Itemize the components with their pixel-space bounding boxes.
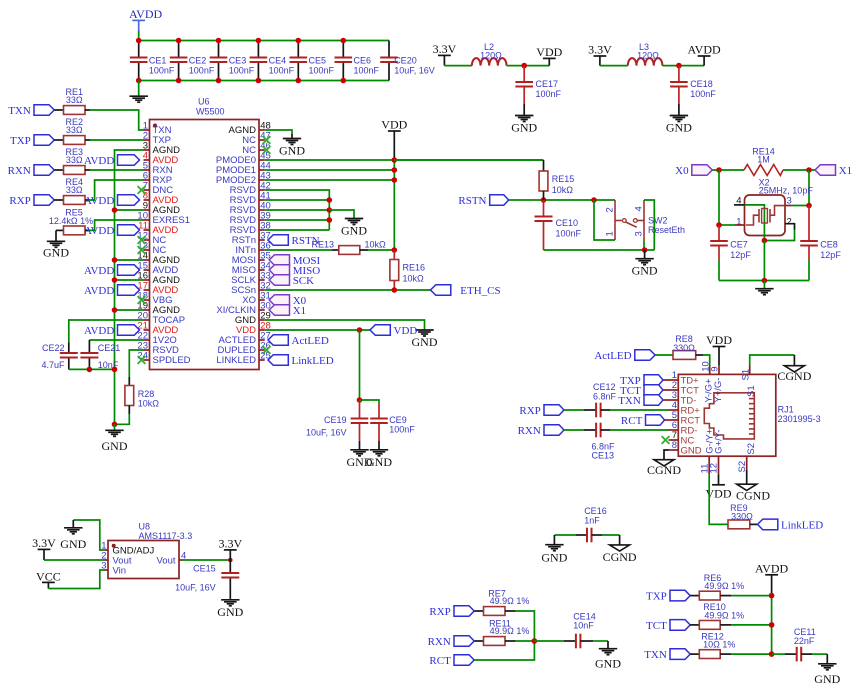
svg-text:12pF: 12pF xyxy=(820,250,841,260)
svg-text:10uF, 16V: 10uF, 16V xyxy=(394,66,435,76)
junction PMODE1 xyxy=(392,167,398,173)
svg-text:49.9Ω 1%: 49.9Ω 1% xyxy=(704,610,744,620)
crystal X2 inner symbol xyxy=(736,195,792,227)
junction AGND rail/cap rail xyxy=(112,367,118,373)
wire AVDD term rail xyxy=(771,596,773,655)
crystal X2 25MHz xyxy=(745,177,814,235)
junction pin3/CE8 xyxy=(806,203,812,209)
wire pin20 TOCAP to CE22 xyxy=(69,320,144,342)
junction RSVD41 xyxy=(327,197,333,203)
svg-text:4: 4 xyxy=(633,206,644,211)
port AVDD pin15 xyxy=(84,265,140,277)
svg-text:CE15: CE15 xyxy=(193,564,216,574)
resistor RE6 49.9R 1% xyxy=(690,595,699,597)
svg-text:AVDD: AVDD xyxy=(84,325,114,337)
wire RE11 to node xyxy=(505,640,516,642)
capacitor CE19 10uF 16V xyxy=(359,400,361,419)
pin 19 AGND (left) xyxy=(137,301,180,317)
pin 6 RXP (left) xyxy=(143,171,172,187)
wire L2 to VDD xyxy=(507,65,550,67)
svg-text:TXN: TXN xyxy=(618,395,641,407)
inductor L3 120R xyxy=(628,58,663,66)
svg-text:RCT: RCT xyxy=(429,655,451,667)
svg-text:RE15: RE15 xyxy=(552,174,575,184)
svg-text:12pF: 12pF xyxy=(730,250,751,260)
svg-text:TXN: TXN xyxy=(644,649,667,661)
svg-text:10nF: 10nF xyxy=(573,621,594,631)
pin 44 PMODE1 (right) xyxy=(216,161,271,177)
no-connect X pin 13 NC xyxy=(138,246,146,254)
chassis ground (CE16 right) xyxy=(619,535,621,545)
wire CE22/CE21 bottom rail xyxy=(69,368,115,370)
wire RCT stub xyxy=(665,419,669,421)
wire node to CE14 xyxy=(534,640,564,642)
pin 20 TOCAP (left) xyxy=(137,311,185,327)
pin 12 NC (left) xyxy=(137,231,166,247)
pin 28 VDD (right) xyxy=(236,321,271,337)
svg-text:CE2: CE2 xyxy=(189,56,207,66)
svg-text:GND: GND xyxy=(666,121,692,135)
svg-text:6.8nF: 6.8nF xyxy=(592,441,616,451)
capacitor CE22 4.7uF xyxy=(68,342,70,353)
resistor R28 10k xyxy=(128,377,130,386)
svg-text:RXN: RXN xyxy=(8,165,31,177)
capacitor CE13 6.8nF xyxy=(592,423,616,461)
svg-text:ActLED: ActLED xyxy=(594,350,631,362)
port TXP xyxy=(10,135,54,147)
svg-text:AVDD: AVDD xyxy=(84,155,114,167)
pin 48 AGND (right) xyxy=(229,121,271,137)
ground (CE15) xyxy=(217,600,243,619)
svg-text:GND: GND xyxy=(595,657,621,671)
svg-text:ETH_CS: ETH_CS xyxy=(460,285,500,297)
svg-text:CGND: CGND xyxy=(736,488,770,502)
wire VCC to pin3 xyxy=(48,570,104,589)
port SCK pin33 xyxy=(269,275,314,287)
junction pin9 xyxy=(112,207,118,213)
wire crystal pin4 net (through body) xyxy=(745,205,765,241)
wire 3.3V to L3 xyxy=(600,65,628,67)
svg-text:2: 2 xyxy=(604,207,615,212)
junction TXN xyxy=(769,651,775,657)
pin 3 AGND (left) xyxy=(143,141,180,157)
svg-text:CGND: CGND xyxy=(647,463,681,477)
RJ1 pin 8 GND xyxy=(669,440,702,456)
pin 36 INTn (right) xyxy=(235,241,270,257)
power AVDD (term) xyxy=(755,561,788,595)
wire RE14 to X1 xyxy=(783,169,815,171)
capacitor CE9 100nF xyxy=(378,404,380,419)
wire pin38 RSVD xyxy=(265,229,330,231)
wire VDD to RE15 xyxy=(394,159,543,161)
port X1 pin30 xyxy=(269,305,306,317)
pin 27 ACTLED (right) xyxy=(219,331,271,347)
power VCC (U8 Vin) xyxy=(36,570,61,589)
svg-text:U6: U6 xyxy=(198,96,210,106)
svg-text:GND: GND xyxy=(217,605,243,619)
junction pin4/CE15 xyxy=(228,558,233,563)
pin 21 AVDD (left) xyxy=(137,321,178,337)
RJ1 pin 3 TD- xyxy=(669,390,697,406)
wire AVDD stem xyxy=(138,31,140,41)
resistor RE10 49.9R 1% xyxy=(690,624,699,626)
svg-text:330Ω: 330Ω xyxy=(731,511,753,521)
svg-text:49.9Ω 1%: 49.9Ω 1% xyxy=(490,596,530,606)
pin 45 PMODE0 (right) xyxy=(216,151,271,167)
wire pin9 AGND xyxy=(115,209,144,211)
svg-text:GND: GND xyxy=(43,246,69,260)
svg-text:AMS1117-3.3: AMS1117-3.3 xyxy=(139,531,193,541)
wire CE8 to rail xyxy=(808,259,810,281)
svg-text:GND: GND xyxy=(511,121,537,135)
wire pin42 RSVD xyxy=(265,190,330,230)
power 3.3V (L2 input) xyxy=(433,42,457,66)
pin 5 RXN (left) xyxy=(143,161,173,177)
U8 pin 3 Vin xyxy=(101,561,126,577)
port AVDD pin8 xyxy=(84,195,140,207)
capacitor CE5 100nF xyxy=(297,41,299,58)
svg-text:GND: GND xyxy=(279,144,305,158)
junction gnd rail xyxy=(762,278,768,284)
wire pin41 RSVD xyxy=(265,199,330,201)
svg-text:Vout: Vout xyxy=(156,556,175,567)
svg-text:GND: GND xyxy=(632,264,658,278)
ground (U8 pin1) xyxy=(72,520,74,528)
svg-text:RXP: RXP xyxy=(519,405,540,417)
svg-text:120Ω: 120Ω xyxy=(637,50,659,60)
resistor RE7 49.9R 1% xyxy=(475,610,484,612)
port LinkLED pin25 xyxy=(268,355,334,367)
chassis ground (S1) xyxy=(777,366,811,384)
wire SW2 pin3 down xyxy=(643,241,645,251)
capacitor CE3 100nF xyxy=(218,41,220,58)
svg-text:AVDD: AVDD xyxy=(84,195,114,207)
pin 42 RSVD (right) xyxy=(230,181,271,197)
svg-text:LinkLED: LinkLED xyxy=(292,355,334,367)
wire pin4 to 3.3V xyxy=(183,559,231,561)
pin 11 AVDD (left) xyxy=(138,221,178,237)
svg-text:12: 12 xyxy=(709,463,720,474)
pin 29 GND (right) xyxy=(235,311,271,327)
svg-text:3.3V: 3.3V xyxy=(588,43,612,57)
ground (CE9) xyxy=(378,441,380,450)
svg-text:CE4: CE4 xyxy=(269,56,287,66)
wire TXN to pin1 xyxy=(85,109,90,111)
svg-text:GND: GND xyxy=(366,455,392,469)
wire pin40 RSVD xyxy=(265,209,330,211)
ic U6 W5500 body xyxy=(150,96,260,369)
svg-text:AVDD: AVDD xyxy=(755,561,788,575)
port TXN (RJ45) xyxy=(618,395,663,407)
resistor RE15 10k xyxy=(543,160,545,171)
svg-text:10kΩ: 10kΩ xyxy=(138,399,160,409)
port TXP (RJ45) xyxy=(620,375,663,387)
wire VDD rail xyxy=(393,160,395,250)
resistor RE8 330R xyxy=(673,334,696,359)
svg-text:LinkLED: LinkLED xyxy=(781,519,823,531)
junction dots CE4 xyxy=(256,38,262,44)
no-connect X pin 18 VBG xyxy=(138,296,146,304)
U8 pin 2 Vout xyxy=(101,551,132,567)
port RCT (term) xyxy=(429,655,474,667)
pin 2 wire X2 xyxy=(785,224,795,230)
capacitor CE1 100nF xyxy=(138,41,140,58)
junction dots CE6 xyxy=(341,38,347,44)
port AVDD pin4 xyxy=(84,155,140,167)
wire 3.3V to L2 xyxy=(444,65,472,67)
svg-text:2301995-3: 2301995-3 xyxy=(778,414,821,424)
wire ActLED to RE8 xyxy=(656,354,674,356)
svg-text:33Ω: 33Ω xyxy=(66,155,83,165)
wire pin22 1V2O to CE21 xyxy=(89,339,143,341)
port RSTN pin37 xyxy=(268,235,320,247)
svg-text:33Ω: 33Ω xyxy=(66,185,83,195)
svg-text:33Ω: 33Ω xyxy=(66,95,83,105)
junction RSVD40 xyxy=(327,207,333,213)
svg-text:1: 1 xyxy=(604,231,615,236)
port RSTN (reset circuit) xyxy=(458,195,508,207)
pin 2 TXP (left) xyxy=(143,131,171,147)
pin 10 EXRES1 (left) xyxy=(137,211,190,227)
svg-text:CE10: CE10 xyxy=(556,218,579,228)
junction CE19/CE9 xyxy=(357,397,363,403)
ground (CE11) xyxy=(826,654,828,664)
pin 4 AVDD (left) xyxy=(143,151,179,167)
svg-text:100nF: 100nF xyxy=(690,89,716,99)
port RXN (term) xyxy=(428,636,475,648)
RJ1 pin 2 TCT xyxy=(669,380,700,396)
svg-text:RE16: RE16 xyxy=(403,263,426,273)
svg-text:100nF: 100nF xyxy=(309,66,335,76)
no-connect X pin 47 NC xyxy=(263,136,271,144)
pin 31 XO (right) xyxy=(242,291,271,307)
wire cap-bank bottom rail xyxy=(139,80,389,82)
U8 pin 4 Vout xyxy=(156,551,186,567)
wire pin23 RSVD to R28 xyxy=(129,350,143,377)
junction VDD/decoupling xyxy=(357,327,363,333)
port TCT (term) xyxy=(646,620,690,632)
wire S1 to CGND xyxy=(750,355,795,365)
svg-text:CE6: CE6 xyxy=(354,56,372,66)
junction dots CE2 xyxy=(176,38,182,44)
RJ1 pin 5 RCT xyxy=(669,410,701,426)
svg-text:CE17: CE17 xyxy=(536,79,559,89)
svg-text:S1: S1 xyxy=(740,369,751,381)
wire CE14 to gnd xyxy=(580,640,593,642)
pin 1 TXN (left) xyxy=(143,121,172,137)
RJ1 pin 7 NC xyxy=(669,430,695,446)
svg-text:9: 9 xyxy=(710,367,721,372)
ic U8 AMS1117-3.3 body xyxy=(108,521,192,578)
port VDD pin28 xyxy=(370,325,417,337)
capacitor CE20 10uF 16V xyxy=(388,41,390,58)
resistor RE5 12.4k 1% xyxy=(56,229,64,231)
wire RE8 to RJ1 pin10 xyxy=(696,354,703,356)
pin 40 RSVD (right) xyxy=(230,201,271,217)
wire CE13 to RJ1 pin6 xyxy=(601,429,610,431)
svg-text:RXP: RXP xyxy=(429,606,450,618)
svg-text:GND: GND xyxy=(681,445,702,456)
wire RE7 to node xyxy=(505,610,516,612)
wire R28 to AGND rail xyxy=(115,414,130,424)
svg-text:AVDD: AVDD xyxy=(84,225,114,237)
wire TCT stub xyxy=(663,389,669,391)
svg-text:3.3V: 3.3V xyxy=(433,42,457,56)
svg-text:CE19: CE19 xyxy=(324,415,347,425)
RJ1 pin S2 xyxy=(737,443,757,473)
power VDD (RJ1 pin12, down) xyxy=(706,474,732,500)
svg-text:GND: GND xyxy=(814,672,840,686)
ground (pin29) xyxy=(412,330,438,349)
wire X0 to RE14 xyxy=(712,169,744,171)
svg-text:VDD: VDD xyxy=(706,333,732,347)
svg-text:VCC: VCC xyxy=(36,570,61,584)
power flag AVDD (top) xyxy=(129,7,162,31)
wire pin29 GND to gnd xyxy=(265,320,425,330)
svg-text:100nF: 100nF xyxy=(229,66,255,76)
no-connect X pin 7 DNC xyxy=(138,186,146,194)
pin 4 stub X2 xyxy=(734,204,745,206)
junction pin16 xyxy=(112,277,118,283)
port RXP (CE12) xyxy=(519,405,564,417)
wire VDD down to caps xyxy=(359,330,361,400)
wire pin28 VDD xyxy=(265,329,370,331)
svg-text:CE5: CE5 xyxy=(309,56,327,66)
pin 15 AVDD (left) xyxy=(137,261,178,277)
inductor L2 120R xyxy=(472,58,507,66)
svg-text:CE9: CE9 xyxy=(389,415,407,425)
svg-text:Y+/G-: Y+/G- xyxy=(713,378,724,403)
ground (CE14) xyxy=(607,641,609,649)
junction node AVDD filter xyxy=(676,63,682,69)
svg-text:10kΩ: 10kΩ xyxy=(365,240,387,250)
svg-text:2: 2 xyxy=(787,216,792,227)
svg-text:CE20: CE20 xyxy=(394,56,417,66)
resistor RE12 10R 1% xyxy=(690,653,699,655)
svg-text:3.3V: 3.3V xyxy=(218,536,242,550)
pin 30 XI/CLKIN (right) xyxy=(216,301,270,317)
svg-text:10Ω 1%: 10Ω 1% xyxy=(703,640,735,650)
wire pin48 AGND to gnd xyxy=(265,130,292,134)
capacitor CE16 1nF xyxy=(554,534,576,536)
wire to CE9 xyxy=(360,400,380,404)
ground (CE16 left) xyxy=(553,535,555,545)
junction PMODE0 xyxy=(392,157,398,163)
svg-text:VDD: VDD xyxy=(536,45,562,59)
pin 7 DNC (left) xyxy=(143,181,174,197)
svg-text:100nF: 100nF xyxy=(149,66,175,76)
power AVDD (L3 output) xyxy=(688,43,721,66)
wire pin11 to RE9 xyxy=(709,474,728,524)
svg-text:22nF: 22nF xyxy=(794,636,815,646)
RJ1 pin 4 RD+ xyxy=(669,400,701,416)
wire cap-bank top rail xyxy=(139,40,389,42)
svg-text:4.7uF: 4.7uF xyxy=(41,360,65,370)
svg-text:SW2: SW2 xyxy=(648,215,668,225)
pin 1 wire X2 xyxy=(719,224,735,226)
no-connect X RJ1 pin7 xyxy=(662,436,670,444)
svg-text:10kΩ: 10kΩ xyxy=(403,274,425,284)
capacitor CE12 6.8nF xyxy=(593,382,617,417)
wire RE6 to rail xyxy=(720,595,731,597)
svg-text:X1: X1 xyxy=(839,165,852,177)
svg-text:10uF, 16V: 10uF, 16V xyxy=(175,583,216,593)
ground (CE18) xyxy=(678,104,680,116)
svg-text:GND: GND xyxy=(60,537,86,551)
svg-text:TXP: TXP xyxy=(646,591,667,603)
wire CE12 to RJ1 pin4 xyxy=(601,409,610,411)
port RXN xyxy=(8,165,55,177)
svg-text:1M: 1M xyxy=(757,155,770,165)
power VDD (RJ1 pin9) xyxy=(706,333,732,365)
port RCT (RJ45) xyxy=(621,415,665,427)
svg-text:LINKLED: LINKLED xyxy=(216,355,256,366)
port AVDD pin17 xyxy=(84,285,140,297)
port AVDD pin21 xyxy=(84,325,140,337)
svg-text:S1: S1 xyxy=(746,385,757,397)
junction SW2 left xyxy=(591,197,597,203)
wire pin44 PMODE1 xyxy=(265,169,395,171)
ground (CE17) xyxy=(523,104,525,116)
wire RE12 to rail xyxy=(720,653,731,655)
resistor RE14 1M (zigzag) xyxy=(744,165,783,176)
ground (CE19) xyxy=(359,441,361,450)
port X1 (crystal) xyxy=(815,165,852,177)
svg-text:Vin: Vin xyxy=(113,566,127,577)
wire pin43 PMODE2 xyxy=(265,179,395,181)
pin 9 AGND (left) xyxy=(143,201,180,217)
no-connect X pin 24 SPDLED xyxy=(138,356,146,364)
wire rail to CE11 xyxy=(772,653,785,655)
pin 16 AGND (left) xyxy=(137,271,180,287)
wire L3 to AVDD xyxy=(662,65,704,67)
port ActLED (RJ45) xyxy=(594,350,655,362)
wire RE9 to LinkLED xyxy=(750,523,758,525)
svg-text:VDD: VDD xyxy=(381,118,407,132)
port ActLED pin27 xyxy=(268,335,329,347)
resistor RE16 10k xyxy=(393,250,395,260)
svg-text:RCT: RCT xyxy=(621,415,643,427)
junction pin1/CE7 xyxy=(716,222,722,228)
pin 26 DUPLED (right) xyxy=(217,341,270,357)
capacitor CE17 100nF xyxy=(523,66,525,82)
wire RE5 to pin10 EXRES1 xyxy=(85,229,89,231)
capacitor CE21 10nF xyxy=(88,340,90,353)
RJ1 pin 12 xyxy=(709,430,725,475)
pin 24 SPDLED (left) xyxy=(137,351,190,367)
junction X1 xyxy=(806,167,812,173)
pin 22 1V2O (left) xyxy=(137,331,176,347)
svg-text:TCT: TCT xyxy=(646,620,667,632)
RJ1 pin 9 label xyxy=(710,365,724,403)
wire crystal gnd rail xyxy=(719,280,809,282)
junction RSVD39 xyxy=(327,217,333,223)
svg-text:CE18: CE18 xyxy=(690,79,713,89)
junction X0 xyxy=(716,167,722,173)
pin 32 SCSn (right) xyxy=(231,281,271,297)
junction RE15 xyxy=(541,197,547,203)
RJ1 pin 6 RD- xyxy=(669,420,698,436)
port TXP (term) xyxy=(646,590,690,602)
no-connect X pin 26 DUPLED xyxy=(263,346,271,354)
wire SW2 bottom rail xyxy=(544,249,655,251)
port MOSI pin35 xyxy=(269,255,320,267)
RJ1 pin 10 label xyxy=(700,361,714,402)
svg-text:100nF: 100nF xyxy=(536,89,562,99)
svg-text:100nF: 100nF xyxy=(556,229,582,239)
capacitor CE15 10uF 16V xyxy=(229,560,231,573)
junction TXP xyxy=(769,593,775,599)
